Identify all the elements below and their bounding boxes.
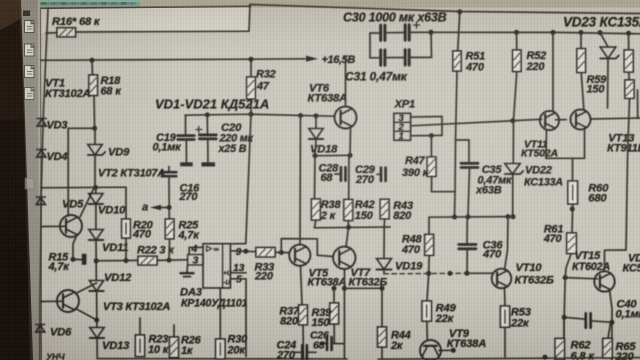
wire riser to top rail xyxy=(249,5,250,32)
wire rail 155 xyxy=(315,154,349,157)
transistor VT1 label xyxy=(45,78,91,101)
wire right column riser xyxy=(628,33,630,50)
wire R61 to VT15 base xyxy=(565,254,571,278)
svg-text:а: а xyxy=(142,202,148,214)
sidebar page-thumbnail icons xyxy=(25,21,35,33)
diode VD3 xyxy=(37,119,67,132)
wire R48 bottom xyxy=(428,255,431,273)
svg-text:КС133А: КС133А xyxy=(524,177,563,189)
wire VT9 emitter row xyxy=(439,349,455,351)
svg-text:VD22: VD22 xyxy=(525,165,552,177)
wire C36 bottom xyxy=(466,249,468,273)
wire R59 to VT12 xyxy=(581,73,584,109)
svg-text:VD10: VD10 xyxy=(98,205,126,217)
svg-text:VD9: VD9 xyxy=(108,147,130,159)
svg-text:VD4: VD4 xyxy=(47,151,68,163)
transistor VT7 xyxy=(317,247,387,289)
resistor R53 xyxy=(500,306,531,330)
wire XP1 pin3 xyxy=(411,116,442,119)
node a junction xyxy=(167,205,172,210)
wire R22 to DA3 pin3 xyxy=(157,259,188,262)
node junction VT3 collector xyxy=(94,318,99,323)
capacitor C36 xyxy=(459,217,504,261)
resistor R44 xyxy=(378,288,411,358)
node junction R20 xyxy=(124,258,129,263)
wire C16 to R25 xyxy=(168,177,170,220)
wire R20 riser xyxy=(125,187,127,219)
resistor R56 xyxy=(624,50,633,72)
wire C40 left link xyxy=(564,317,585,319)
wire VT15 emitter xyxy=(610,290,613,360)
capacitor C28 xyxy=(319,163,346,185)
wire VT10 collector xyxy=(505,217,509,270)
resistor R32 xyxy=(247,69,276,100)
svg-text:4,7к: 4,7к xyxy=(178,230,201,242)
svg-text:220: 220 xyxy=(526,61,546,73)
node junction bottom rail xyxy=(543,355,548,360)
wire R22 row xyxy=(96,259,138,261)
wire R18 branch xyxy=(91,60,94,75)
resistor R47 xyxy=(402,136,436,179)
svg-text:R47: R47 xyxy=(405,155,426,167)
svg-text:0,1мк: 0,1мк xyxy=(616,309,640,321)
svg-text:-U: -U xyxy=(223,280,230,287)
wire pin5 down xyxy=(231,279,247,357)
svg-text:С31 0,47мк: С31 0,47мк xyxy=(345,70,408,84)
wire R32 chain xyxy=(250,59,252,77)
svg-text:VD6: VD6 xyxy=(50,327,72,339)
node junction R18 xyxy=(92,126,97,131)
wire VT11 emitter xyxy=(545,129,548,158)
wire VT3 collector link xyxy=(76,283,97,294)
resistor R25 xyxy=(165,219,200,242)
svg-text:4,7к: 4,7к xyxy=(48,261,71,273)
svg-text:220: 220 xyxy=(254,271,274,283)
wire C35 bottom xyxy=(468,168,470,217)
node junction C40 left xyxy=(562,315,567,320)
resistor R39 xyxy=(312,303,339,329)
svg-text:КС5: КС5 xyxy=(623,263,640,275)
svg-text:270: 270 xyxy=(355,174,375,186)
node junction C20 xyxy=(205,112,210,117)
diode VD19 xyxy=(377,227,424,272)
monitor bezel dark left edge xyxy=(0,0,33,360)
svg-text:390 к: 390 к xyxy=(402,167,430,179)
wire pin13 stub xyxy=(231,272,247,274)
node junction VD22 bottom xyxy=(511,214,516,219)
svg-text:820: 820 xyxy=(393,210,412,222)
wire VT3 emitter link xyxy=(76,309,97,321)
wire R38 bottom xyxy=(315,220,316,228)
svg-text:2к: 2к xyxy=(390,340,404,352)
wire column A down xyxy=(314,156,317,199)
node junction top rail R51 xyxy=(457,9,462,14)
svg-text:1к: 1к xyxy=(181,345,194,357)
wire R47 bottom link xyxy=(432,176,456,191)
transistor VT13 label xyxy=(607,133,640,155)
svg-text:ХР1: ХР1 xyxy=(394,99,416,111)
wire VT6 collector xyxy=(345,58,347,107)
svg-text:150: 150 xyxy=(587,84,606,96)
diode VD6 xyxy=(36,325,72,339)
wire left vertical rail with diode chain xyxy=(40,9,48,360)
wire VD22 to rail217 xyxy=(512,175,514,217)
node junction C35 xyxy=(466,214,471,219)
wire to VT1 collector xyxy=(68,128,94,216)
node junction rail B right xyxy=(626,31,631,36)
node rail junction xyxy=(93,185,98,190)
diode VD5 xyxy=(36,197,84,211)
svg-text:470: 470 xyxy=(132,229,152,241)
wire VT7 emitter down xyxy=(343,269,345,358)
wire right column down xyxy=(626,98,630,250)
svg-text:470: 470 xyxy=(482,249,502,261)
svg-text:0,1мк: 0,1мк xyxy=(153,142,183,154)
wire VT11-VT12 link xyxy=(556,119,567,121)
viewer sidebar strip xyxy=(21,0,41,360)
resistor R26 xyxy=(170,325,202,358)
wire R42 bottom stub xyxy=(347,221,349,228)
wire to R60 xyxy=(572,158,574,181)
svg-text:VT3 КТ3102А: VT3 КТ3102А xyxy=(103,301,170,313)
wire R18 to node xyxy=(93,96,96,129)
node junction emitter xyxy=(71,257,76,262)
node a arrow xyxy=(142,202,169,214)
svg-text:VD5: VD5 xyxy=(62,199,84,211)
wire XP1 pin1 xyxy=(411,134,442,136)
capacitor C19 xyxy=(153,115,195,166)
node junction VD22 tap xyxy=(510,118,515,123)
capacitor C40 xyxy=(586,299,640,328)
diode VD9 xyxy=(88,131,130,159)
svg-text:УНЧ: УНЧ xyxy=(46,352,65,360)
wire dashed thermal rail xyxy=(384,272,467,275)
node junction C36 dash xyxy=(465,271,470,276)
wire VT12 emitter xyxy=(584,129,586,159)
svg-text:С30 1000 мк х63В: С30 1000 мк х63В xyxy=(343,11,447,25)
wire XP1 pin2 to VT11 base xyxy=(411,119,542,126)
node junction VD18 top xyxy=(314,113,319,118)
wire rail extension xyxy=(508,216,513,218)
transistor VT9 xyxy=(420,328,486,360)
ground symbol DA3 xyxy=(181,265,194,277)
svg-text:1: 1 xyxy=(399,131,404,142)
diode VD23 zener xyxy=(563,15,640,59)
resistor R51 xyxy=(453,51,485,74)
svg-text:68: 68 xyxy=(313,340,325,352)
resistor R59 xyxy=(577,33,607,96)
node junction rail B R59 xyxy=(579,30,584,35)
node junction VT10 collector xyxy=(506,214,511,219)
wire R23 riser xyxy=(139,318,141,335)
svg-text:22к: 22к xyxy=(435,313,455,325)
wire R53 bottom xyxy=(504,327,506,357)
wire VT10 emitter xyxy=(504,288,507,307)
node junction C40 right xyxy=(609,320,614,325)
node junction dash mid xyxy=(448,271,453,276)
svg-text:47: 47 xyxy=(256,81,270,93)
wire R16 top link xyxy=(46,32,57,34)
connector XP1 xyxy=(394,99,416,143)
node junction VT9 xyxy=(451,348,456,353)
resistor R23 xyxy=(135,334,169,357)
capacitor C20 electrolytic xyxy=(196,115,254,167)
node junction rail B R52 xyxy=(514,30,519,35)
transistor VT3 xyxy=(41,290,171,313)
capacitor C35 xyxy=(461,140,513,197)
svg-text:2 к: 2 к xyxy=(320,210,337,222)
wire VD9 to VT2 xyxy=(80,157,95,218)
transistor VT15 xyxy=(572,250,615,292)
capacitor C16 xyxy=(162,167,200,204)
wire VD23 down xyxy=(607,58,610,108)
node junction rail xyxy=(248,112,253,117)
wire VD10-VD11 xyxy=(95,204,97,230)
wire R32 to rail xyxy=(250,99,252,114)
resistor R38 xyxy=(311,199,341,222)
capacitor C29 xyxy=(355,164,386,186)
node junction R48 dash xyxy=(426,271,431,276)
svg-text:КТ3102А: КТ3102А xyxy=(45,88,91,100)
node junction VT5 base xyxy=(279,250,284,255)
wire bottom rail left xyxy=(97,358,347,360)
svg-text:КТ638А: КТ638А xyxy=(308,277,347,289)
teal title bar xyxy=(26,0,140,7)
node junction R39 xyxy=(332,286,337,291)
wire capacitor top rail xyxy=(185,114,335,116)
node junction pin9 supply xyxy=(243,249,248,254)
svg-text:х63В: х63В xyxy=(475,185,502,197)
wire VD18 to rail155 xyxy=(315,139,316,156)
resistor R48 xyxy=(401,217,434,256)
node junction VT5 riser xyxy=(298,113,303,118)
resistor R42 xyxy=(344,199,375,222)
wire R56-R58 link xyxy=(628,72,631,80)
wire VT5 emitter xyxy=(301,266,303,305)
resistor R60 xyxy=(568,181,609,205)
resistor R20 xyxy=(122,219,154,241)
node junction VT15 base xyxy=(563,275,568,280)
node junction R47 xyxy=(429,133,434,138)
resistor R18 xyxy=(89,75,122,98)
wire base riser link xyxy=(281,239,317,256)
wire emitter row xyxy=(344,287,382,289)
svg-text:20к: 20к xyxy=(227,345,247,357)
wire emitter join xyxy=(546,157,585,159)
wire top supply rail xyxy=(250,5,640,14)
diode VD4 xyxy=(37,150,68,164)
svg-text:470: 470 xyxy=(543,233,563,245)
diode VD24 label xyxy=(623,253,640,275)
resistor R49 xyxy=(422,301,457,325)
svg-text:VD3: VD3 xyxy=(47,120,68,132)
resistor R37 xyxy=(279,305,307,328)
node junction VT7 collector xyxy=(346,225,351,230)
capacitor C26 xyxy=(310,330,344,352)
capacitor C30 electrolytic xyxy=(343,11,447,41)
svg-text:150: 150 xyxy=(355,210,374,222)
svg-text:КТ638А: КТ638А xyxy=(308,93,348,105)
diode VD10 xyxy=(89,188,127,217)
resistor R16 xyxy=(52,16,101,37)
wire +16.5V rail xyxy=(41,59,305,61)
svg-text:820: 820 xyxy=(280,316,299,328)
svg-text:4: 4 xyxy=(191,243,198,255)
wire R62 top link xyxy=(560,317,564,338)
wire rail 217 xyxy=(429,216,508,219)
svg-text:КТ632Б: КТ632Б xyxy=(515,275,555,287)
svg-text:470: 470 xyxy=(401,244,421,256)
wire VT2 emitter down xyxy=(73,235,77,260)
svg-text:470: 470 xyxy=(465,62,485,74)
svg-text:220: 220 xyxy=(615,351,635,360)
wire R20 to R22 row xyxy=(125,238,127,261)
svg-text:680: 680 xyxy=(588,193,607,205)
wire VD12 down xyxy=(96,291,98,328)
node junction R22 tap xyxy=(94,258,99,263)
wire R60 bottom xyxy=(571,204,574,233)
resistor R61 xyxy=(543,224,577,254)
op-amp DA3 xyxy=(180,243,248,310)
resistor R58 xyxy=(625,80,634,98)
transistor VT2 xyxy=(41,168,165,238)
node junction R44 xyxy=(380,286,385,291)
node junction VT7 emitter xyxy=(342,286,347,291)
wire R37 bottom xyxy=(302,325,305,358)
svg-text:68 к: 68 к xyxy=(101,86,123,98)
diode VD18 xyxy=(309,116,338,156)
svg-text:22к: 22к xyxy=(510,318,530,330)
wire column B down xyxy=(348,155,350,199)
resistor R65 xyxy=(603,323,637,360)
application top toolbar band xyxy=(0,0,640,8)
node junction R51 line xyxy=(452,215,457,220)
wire bottom rail right xyxy=(378,358,640,360)
wire rail 227 xyxy=(315,226,391,229)
wire pin4 link xyxy=(189,246,203,248)
wire R51 riser xyxy=(458,12,460,51)
wire rail B xyxy=(431,32,640,34)
resistor R33 xyxy=(254,248,275,283)
wire R52 down to base row xyxy=(514,72,517,121)
svg-text:+16,5В: +16,5В xyxy=(322,54,356,66)
wire C30-C31 left link xyxy=(369,33,371,58)
capacitor C31 xyxy=(345,50,432,84)
wire VT15 collector xyxy=(605,250,627,271)
diode VD22 zener xyxy=(505,121,564,189)
svg-text:68: 68 xyxy=(321,172,334,184)
wire R32 rail to DA3 xyxy=(231,114,252,244)
wire pin3-pin1 link xyxy=(441,117,443,136)
wire VT6 emitter xyxy=(349,127,352,156)
svg-text:VT10: VT10 xyxy=(516,262,543,274)
node junction R25 bottom xyxy=(167,258,172,263)
svg-text:х25 В: х25 В xyxy=(218,143,247,155)
node junction rail B VD23 xyxy=(598,30,603,35)
svg-text:VD12: VD12 xyxy=(104,272,132,284)
svg-text:270: 270 xyxy=(276,350,296,360)
wire VD19 bottom stub xyxy=(383,270,385,274)
wire VT5 collector riser xyxy=(299,116,302,245)
wire R25 bottom xyxy=(168,239,171,260)
wire R49 to VT9 xyxy=(426,321,428,340)
wire C35 top link xyxy=(456,139,470,141)
svg-text:VD13: VD13 xyxy=(102,340,130,352)
svg-text:VD19: VD19 xyxy=(395,261,423,273)
transistor VT5 xyxy=(289,245,346,289)
wire R51 down xyxy=(455,71,458,217)
wire C31 riser to rail B xyxy=(430,32,433,57)
wire VT11 collector riser xyxy=(552,32,554,110)
resistor R43 xyxy=(380,199,413,222)
svg-text:3: 3 xyxy=(193,255,199,267)
wire R62 riser xyxy=(564,278,565,338)
diode VD11 xyxy=(89,230,129,255)
svg-text:КТ911Б: КТ911Б xyxy=(607,143,640,155)
svg-text:10 к: 10 к xyxy=(148,344,170,356)
node junction VD18 xyxy=(313,153,318,158)
wire pin9 to R33 xyxy=(231,250,257,253)
capacitor C24 xyxy=(276,340,316,360)
resistor R30 xyxy=(216,288,249,359)
svg-text:КР140УД1101: КР140УД1101 xyxy=(181,298,248,310)
node junction VT6 emitter xyxy=(348,153,353,158)
wire R33 to VT5 base xyxy=(275,251,289,253)
wire dash to VT10 base xyxy=(467,272,493,274)
wire VD13 down xyxy=(96,338,98,359)
sidebar small dark icon xyxy=(23,11,30,17)
svg-text:270: 270 xyxy=(179,191,199,203)
resistor R52 xyxy=(513,32,547,73)
wire R49 riser xyxy=(427,273,429,301)
svg-text:R16* 68 к: R16* 68 к xyxy=(52,16,101,28)
svg-text:VD23 КС135А: VD23 КС135А xyxy=(563,15,640,30)
transistor VT6 xyxy=(308,83,357,129)
wire VD11 down xyxy=(95,240,97,281)
wire VT12 to right xyxy=(591,118,640,119)
svg-text:∞: ∞ xyxy=(214,245,219,254)
wire R43 bottom xyxy=(383,219,385,227)
transistor VT10 xyxy=(492,262,554,288)
node junction rail B start xyxy=(429,30,434,35)
node junction R60 xyxy=(570,207,575,212)
node junction rail B VT11 xyxy=(551,30,556,35)
svg-text:VT2 КТ3107А: VT2 КТ3107А xyxy=(98,168,165,180)
transistor VT11 xyxy=(521,111,559,160)
node +16.5V arrow xyxy=(306,54,355,66)
svg-text:150: 150 xyxy=(312,317,331,329)
capacitor contact bar R15 node xyxy=(48,252,87,274)
wire VT7 collector xyxy=(346,227,349,247)
wire R39 bottom xyxy=(333,324,335,343)
svg-text:VD1-VD21 КД521А: VD1-VD21 КД521А xyxy=(155,97,269,112)
resistor R62 xyxy=(555,338,595,360)
svg-text:R32: R32 xyxy=(256,69,276,81)
diode VD12 xyxy=(89,272,132,291)
resistor R22 xyxy=(137,245,175,265)
transistor VT12 xyxy=(571,110,591,130)
diode VD13 xyxy=(90,328,130,353)
wire mid-left rail xyxy=(41,186,126,189)
svg-text:VD11: VD11 xyxy=(102,242,128,254)
